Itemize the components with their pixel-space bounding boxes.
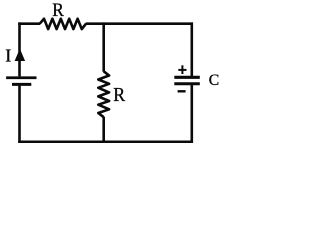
battery B1 short plate (-): [12, 83, 31, 86]
svg-text:C: C: [209, 72, 219, 89]
wire left branch upper (into battery): [18, 22, 21, 76]
plus polarity mark: [178, 65, 186, 74]
resistor R1 zigzag (top): [40, 19, 86, 29]
wire left branch lower (battery to bottom): [18, 86, 21, 143]
capacitor C1 bottom plate: [174, 82, 200, 85]
wire right branch lower (capacitor to bottom): [191, 85, 194, 143]
wire bottom segment: [18, 140, 193, 143]
svg-text:R: R: [52, 0, 64, 21]
wire middle branch upper: [102, 22, 105, 71]
svg-text:I: I: [5, 45, 11, 65]
battery B1 long plate (+): [6, 76, 36, 79]
svg-text:R: R: [113, 84, 125, 106]
current arrow on left branch: [15, 49, 26, 61]
wire top-right segment: [86, 22, 193, 25]
wire middle branch lower: [102, 117, 105, 143]
capacitor C1 top plate: [174, 76, 200, 79]
minus polarity mark: [178, 90, 186, 92]
resistor R2 zigzag (middle): [98, 71, 109, 117]
wire top-left segment: [18, 22, 40, 25]
wire right branch upper (into capacitor): [191, 22, 194, 76]
